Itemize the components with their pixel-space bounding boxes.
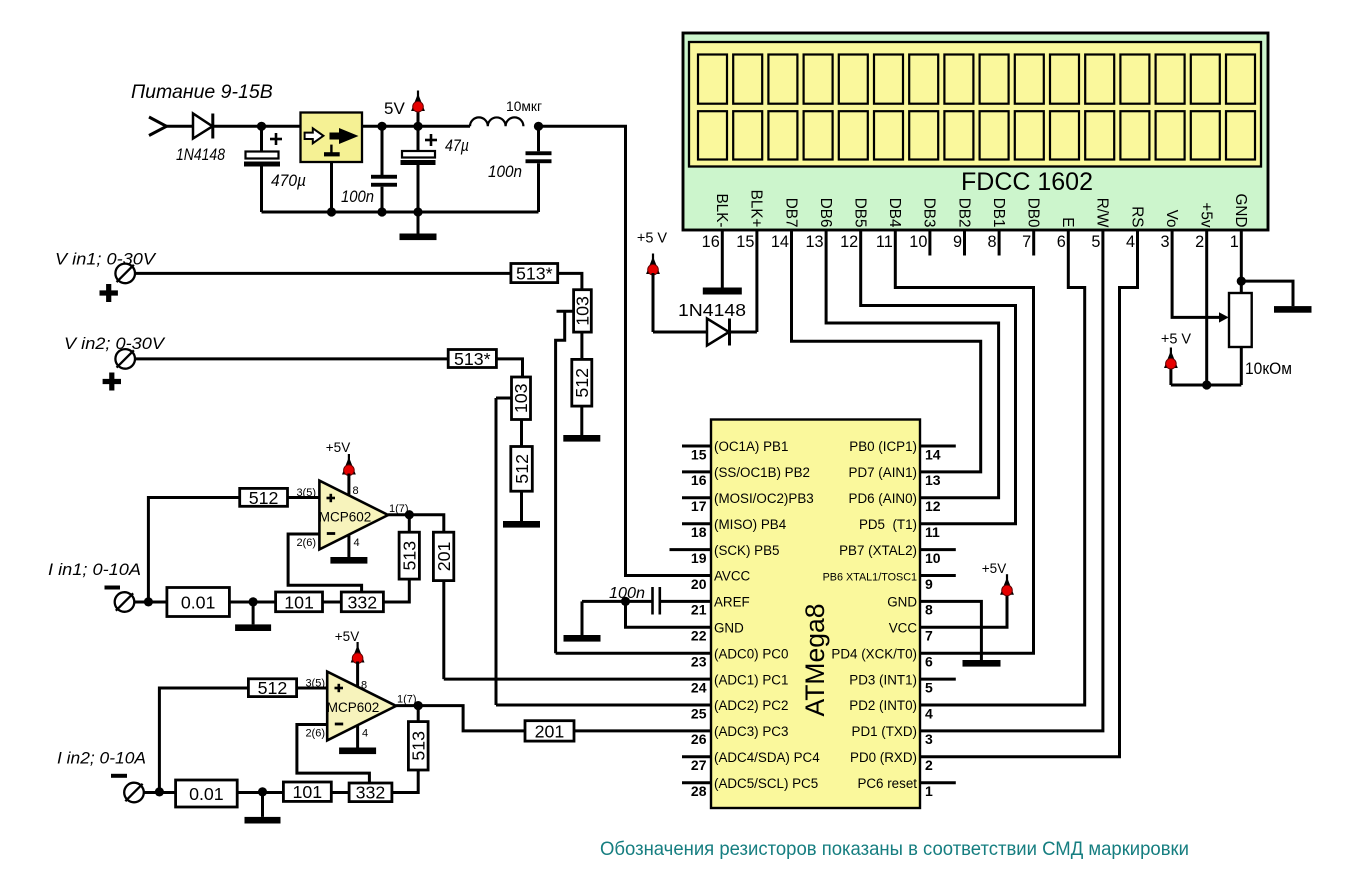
- wire: [229, 601, 275, 604]
- wire DB5 to PD5: [861, 230, 1016, 524]
- label minus I in2: [111, 774, 127, 778]
- svg-text:16: 16: [702, 233, 720, 251]
- resistor R6 512: [511, 447, 533, 492]
- wire: [417, 706, 420, 722]
- svg-text:8: 8: [988, 233, 997, 251]
- power +5V arrow A6: [351, 642, 365, 686]
- svg-text:MCP602: MCP602: [327, 700, 380, 715]
- wire: [520, 420, 523, 447]
- svg-text:AVCC: AVCC: [714, 569, 751, 584]
- svg-text:GND: GND: [714, 621, 744, 636]
- terminal I in1: [115, 592, 135, 612]
- svg-text:(ADC3) PC3: (ADC3) PC3: [714, 724, 788, 739]
- ground LCD right: [1274, 306, 1312, 313]
- svg-text:8: 8: [361, 680, 367, 692]
- svg-text:1: 1: [1230, 233, 1239, 251]
- svg-text:13: 13: [805, 233, 823, 251]
- wire ADC2 pin25: [496, 704, 711, 707]
- wiper arrowhead: [1219, 312, 1229, 322]
- wire: [166, 125, 193, 128]
- input connector J1: [149, 117, 167, 136]
- node M junction: [144, 597, 153, 606]
- wire: [159, 688, 248, 792]
- IC U3 pin name labels: [714, 439, 917, 791]
- power +5V arrow A3: [1164, 348, 1178, 386]
- svg-text:16: 16: [691, 472, 707, 488]
- svg-text:(ADC0) PC0: (ADC0) PC0: [714, 646, 788, 661]
- svg-text:E: E: [1059, 217, 1076, 227]
- node G junction: [413, 207, 422, 216]
- svg-text:I in2; 0-10A: I in2; 0-10A: [57, 749, 146, 768]
- svg-text:(SCK) PB5: (SCK) PB5: [714, 543, 779, 558]
- svg-text:332: 332: [356, 783, 386, 803]
- svg-text:7: 7: [925, 628, 933, 644]
- svg-text:PD3 (INT1): PD3 (INT1): [849, 672, 917, 687]
- svg-text:11: 11: [876, 233, 893, 251]
- svg-text:2(6): 2(6): [305, 728, 325, 740]
- wire: [323, 601, 342, 604]
- svg-text:DB1: DB1: [990, 198, 1007, 228]
- svg-text:Vo: Vo: [1163, 210, 1180, 228]
- node O junction: [405, 510, 414, 519]
- svg-text:+5V: +5V: [326, 440, 350, 455]
- capacitor C4 100n: [526, 126, 552, 212]
- svg-text:R/W: R/W: [1094, 198, 1111, 228]
- svg-text:47µ: 47µ: [445, 136, 469, 155]
- wire: [297, 687, 328, 690]
- svg-text:13: 13: [925, 472, 941, 488]
- svg-text:101: 101: [293, 782, 323, 802]
- svg-text:6: 6: [1057, 233, 1066, 251]
- svg-text:+5v: +5v: [1198, 202, 1215, 227]
- svg-text:V in1; 0-30V: V in1; 0-30V: [55, 250, 157, 269]
- wire: [136, 357, 449, 360]
- svg-text:10: 10: [925, 550, 941, 566]
- wire 5V rail: [539, 126, 712, 575]
- IC U3 ATMega8 body: [711, 420, 920, 809]
- svg-text:22: 22: [691, 628, 707, 644]
- svg-text:PB7 (XTAL2): PB7 (XTAL2): [839, 543, 917, 558]
- capacitor C1 470µ: [244, 126, 280, 212]
- svg-text:PD6 (AIN0): PD6 (AIN0): [849, 491, 917, 506]
- svg-text:513: 513: [408, 731, 428, 761]
- resistor R2 103: [573, 290, 593, 332]
- wire: [362, 125, 470, 128]
- svg-text:PD5 (T1): PD5 (T1): [859, 517, 917, 532]
- wire: [136, 272, 511, 275]
- svg-text:3: 3: [925, 731, 933, 747]
- ground U1 pin4: [330, 535, 367, 564]
- resistor R9 101: [276, 592, 323, 612]
- wire ground rail: [262, 211, 539, 214]
- node A junction: [257, 122, 266, 131]
- svg-text:103: 103: [573, 296, 593, 326]
- svg-text:201: 201: [535, 721, 565, 741]
- svg-text:PB0 (ICP1): PB0 (ICP1): [849, 439, 917, 454]
- svg-text:DB2: DB2: [955, 198, 972, 228]
- wire: [580, 332, 583, 359]
- wire: [288, 496, 320, 499]
- svg-text:PC6 reset: PC6 reset: [857, 776, 917, 791]
- power +5V arrow A4: [1000, 574, 1014, 596]
- terminal I in2: [124, 783, 144, 803]
- ground main: [400, 212, 437, 240]
- svg-text:ATMega8: ATMega8: [800, 604, 830, 717]
- label minus I in1: [105, 586, 121, 590]
- svg-text:512: 512: [512, 454, 532, 484]
- svg-text:+5V: +5V: [982, 561, 1006, 576]
- potentiometer RV1 10кОм: [1229, 281, 1252, 385]
- svg-text:512: 512: [249, 488, 279, 508]
- svg-text:GND: GND: [1232, 194, 1249, 228]
- wire: [135, 601, 167, 604]
- LCD module body: [683, 33, 1268, 230]
- wire pin15 BLK+: [755, 230, 758, 332]
- svg-text:25: 25: [691, 705, 707, 721]
- resistor R1 513*: [511, 263, 558, 283]
- svg-text:103: 103: [511, 383, 531, 413]
- svg-text:5: 5: [925, 679, 933, 695]
- node J junction: [621, 597, 630, 606]
- wire: [442, 581, 445, 680]
- svg-text:PD1 (TXD): PD1 (TXD): [852, 724, 917, 739]
- ground BLK-: [703, 288, 742, 295]
- svg-text:14: 14: [925, 446, 941, 462]
- svg-text:(ADC2) PC2: (ADC2) PC2: [714, 698, 788, 713]
- wire: [574, 729, 711, 732]
- svg-text:470µ: 470µ: [271, 171, 306, 190]
- svg-text:DB0: DB0: [1025, 198, 1042, 228]
- LCD display area: [689, 42, 1261, 167]
- wire: [409, 515, 444, 533]
- capacitor C3 47µ: [401, 126, 436, 212]
- resistor R3 512: [572, 359, 592, 406]
- svg-text:Обозначения резисторов показан: Обозначения резисторов показаны в соотве…: [600, 838, 1189, 860]
- wire ADC0 pin23: [556, 652, 711, 655]
- wire pin1 GND: [1240, 230, 1243, 281]
- label U1b minus input: [335, 723, 343, 726]
- wire feedback U1b: [297, 725, 370, 784]
- wire: [331, 791, 349, 794]
- svg-text:513*: 513*: [516, 263, 553, 283]
- wire: [383, 579, 409, 602]
- svg-text:9: 9: [925, 576, 933, 592]
- svg-text:2(6): 2(6): [296, 537, 316, 549]
- svg-text:18: 18: [691, 524, 707, 540]
- node F junction: [377, 207, 386, 216]
- svg-text:5: 5: [1091, 233, 1100, 251]
- wire Vo to wiper: [1172, 230, 1220, 317]
- wire: [1241, 281, 1293, 306]
- node H junction: [1237, 277, 1246, 286]
- ground shunt1: [235, 602, 271, 631]
- svg-text:MCP602: MCP602: [319, 510, 372, 525]
- wire: [144, 791, 175, 794]
- wire VCC pin7: [920, 595, 1007, 627]
- svg-text:4: 4: [362, 728, 368, 740]
- ground pin8: [963, 660, 1001, 667]
- svg-text:10мкг: 10мкг: [506, 99, 542, 114]
- wire: [653, 331, 707, 334]
- wire DB6 to PD6: [826, 230, 999, 498]
- svg-text:8: 8: [353, 485, 359, 497]
- wire: [148, 498, 239, 602]
- wire DB0 stub: [1032, 230, 1035, 256]
- power +5V arrow A1: [411, 91, 425, 127]
- svg-text:V in2; 0-30V: V in2; 0-30V: [64, 334, 166, 353]
- svg-text:GND: GND: [887, 595, 917, 610]
- resistor R5 103: [511, 377, 531, 420]
- svg-text:DB7: DB7: [782, 198, 799, 228]
- svg-text:VCC: VCC: [889, 621, 918, 636]
- label plus V in2: [103, 373, 121, 391]
- wire: [731, 331, 757, 334]
- svg-text:PD2 (INT0): PD2 (INT0): [849, 698, 917, 713]
- wire DB2 stub: [963, 230, 966, 256]
- wire: [392, 770, 418, 793]
- svg-text:BLK-: BLK-: [713, 193, 730, 227]
- svg-text:PD7 (AIN1): PD7 (AIN1): [849, 465, 917, 480]
- svg-text:2: 2: [925, 757, 933, 773]
- svg-text:332: 332: [348, 592, 378, 612]
- wire: [582, 600, 652, 603]
- node P junction: [155, 787, 164, 796]
- svg-text:7: 7: [1022, 233, 1031, 251]
- wire R/W to PD1: [920, 230, 1103, 731]
- svg-text:101: 101: [284, 592, 314, 612]
- wire DB7 to PD7: [792, 230, 981, 472]
- wire DB3 stub: [928, 230, 931, 256]
- wire E to PD2: [920, 230, 1085, 705]
- svg-text:4: 4: [1126, 233, 1135, 251]
- LCD pin name labels: [713, 190, 1249, 228]
- svg-text:PB6 XTAL1/TOSC1: PB6 XTAL1/TOSC1: [823, 572, 917, 584]
- ground shunt2: [245, 793, 281, 824]
- wire GND pin22: [626, 601, 712, 627]
- op-amp U1b MCP602: [327, 672, 396, 741]
- svg-text:BLK+: BLK+: [748, 190, 765, 228]
- DC-DC converter U2: [301, 113, 363, 163]
- capacitor C5 100n AREF: [653, 587, 660, 615]
- svg-text:28: 28: [691, 783, 707, 799]
- svg-text:201: 201: [434, 541, 454, 571]
- svg-text:1: 1: [925, 783, 933, 799]
- svg-text:2: 2: [1195, 233, 1204, 251]
- svg-text:100n: 100n: [341, 187, 374, 206]
- resistor R14 0.01: [176, 780, 238, 807]
- wire AREF pin21: [661, 600, 711, 603]
- IC U3 unconnected pin stubs: [670, 446, 956, 783]
- svg-text:DB5: DB5: [852, 198, 869, 228]
- svg-text:+5 V: +5 V: [1161, 332, 1192, 348]
- svg-text:1N4148: 1N4148: [678, 300, 746, 320]
- terminal V in2: [115, 349, 135, 369]
- svg-text:17: 17: [691, 498, 707, 514]
- wire tap node K: [557, 310, 574, 313]
- svg-text:PD4 (XCK/T0): PD4 (XCK/T0): [831, 646, 917, 661]
- terminal V in1: [115, 264, 135, 284]
- svg-text:10: 10: [909, 233, 927, 251]
- wire: [237, 791, 283, 794]
- resistor R15 101: [283, 782, 331, 802]
- svg-text:15: 15: [691, 446, 707, 462]
- label U1 plus input: [327, 494, 336, 502]
- LCD character cells: [698, 55, 1255, 160]
- resistor R16 332: [349, 783, 392, 803]
- label C3 plus: [425, 134, 437, 146]
- svg-text:(OC1A) PB1: (OC1A) PB1: [714, 439, 788, 454]
- ground AREF: [564, 601, 601, 641]
- node N junction: [249, 597, 258, 606]
- svg-text:(ADC4/SDA) PC4: (ADC4/SDA) PC4: [714, 750, 820, 765]
- wire RS to PD0: [920, 230, 1138, 757]
- svg-text:512: 512: [258, 678, 288, 698]
- op-amp U1 MCP602: [319, 481, 388, 550]
- svg-text:DB6: DB6: [817, 198, 834, 228]
- svg-text:(ADC1) PC1: (ADC1) PC1: [714, 672, 788, 687]
- svg-text:FDCC 1602: FDCC 1602: [961, 168, 1093, 196]
- svg-text:DB4: DB4: [886, 198, 903, 228]
- wire: [418, 706, 525, 731]
- svg-text:5V: 5V: [384, 99, 405, 118]
- resistor R13 512: [248, 678, 296, 698]
- svg-text:20: 20: [691, 576, 707, 592]
- svg-text:12: 12: [840, 233, 858, 251]
- svg-text:15: 15: [736, 233, 754, 251]
- svg-text:100n: 100n: [488, 162, 522, 181]
- wire tap node L: [496, 397, 512, 400]
- resistor R12 201: [433, 532, 453, 580]
- node S junction: [414, 701, 423, 710]
- node C junction: [413, 122, 422, 131]
- diode D2 1N4148: [707, 319, 730, 346]
- svg-text:Питание 9-15В: Питание 9-15В: [131, 81, 273, 103]
- wire: [556, 311, 565, 653]
- svg-text:23: 23: [691, 654, 707, 670]
- wire DB1 stub: [998, 230, 1001, 256]
- resistor R18 201: [525, 721, 574, 742]
- wire feedback U1: [288, 534, 362, 592]
- svg-text:DB3: DB3: [921, 198, 938, 228]
- resistor R11 513: [399, 532, 419, 579]
- label U1b plus input: [335, 684, 344, 692]
- label U1 minus input: [327, 532, 335, 535]
- svg-text:6: 6: [925, 654, 933, 670]
- svg-text:I in1; 0-10A: I in1; 0-10A: [48, 560, 141, 579]
- svg-text:+5V: +5V: [335, 629, 359, 644]
- svg-text:11: 11: [925, 524, 940, 540]
- svg-text:513: 513: [399, 541, 419, 571]
- capacitor C2 100n: [371, 126, 397, 212]
- resistor R8 0.01: [167, 588, 230, 617]
- wire: [388, 513, 409, 516]
- wire pin2 +5v: [1205, 230, 1208, 385]
- resistor R7 512: [240, 488, 288, 508]
- wire: [396, 704, 418, 707]
- svg-text:(SS/OC1B) PB2: (SS/OC1B) PB2: [714, 465, 810, 480]
- svg-text:27: 27: [691, 757, 707, 773]
- svg-text:(ADC5/SCL) PC5: (ADC5/SCL) PC5: [714, 776, 818, 791]
- wire: [495, 398, 498, 705]
- node Q junction: [258, 787, 267, 796]
- wire: [1171, 384, 1241, 387]
- node I junction: [1202, 380, 1211, 389]
- svg-text:(MISO) PB4: (MISO) PB4: [714, 517, 787, 532]
- node E junction: [327, 207, 336, 216]
- svg-text:0.01: 0.01: [181, 592, 216, 612]
- svg-text:1(7): 1(7): [397, 694, 417, 706]
- svg-text:12: 12: [925, 498, 941, 514]
- resistor R10 332: [341, 592, 383, 612]
- wire: [214, 125, 301, 128]
- svg-text:21: 21: [691, 602, 707, 618]
- svg-text:512: 512: [572, 368, 592, 398]
- LCD pin number labels: [702, 233, 1239, 251]
- svg-text:4: 4: [354, 537, 360, 549]
- svg-text:24: 24: [691, 679, 707, 695]
- svg-text:26: 26: [691, 731, 707, 747]
- wire: [496, 359, 522, 377]
- svg-text:4: 4: [925, 705, 933, 721]
- node B junction: [377, 122, 386, 131]
- wire GND pin8: [920, 601, 981, 660]
- svg-text:19: 19: [691, 550, 707, 566]
- wire: [558, 273, 582, 289]
- power +5V arrow A2: [646, 254, 660, 333]
- svg-text:9: 9: [953, 233, 962, 251]
- svg-text:513*: 513*: [454, 349, 491, 369]
- svg-text:AREF: AREF: [714, 595, 750, 610]
- diode D1 1N4148: [193, 114, 213, 139]
- svg-text:10кОм: 10кОм: [1245, 360, 1292, 378]
- resistor R4 513*: [448, 349, 496, 369]
- ground divider2: [503, 491, 540, 527]
- node D junction: [534, 122, 543, 131]
- svg-text:14: 14: [771, 233, 789, 251]
- svg-text:PD0 (RXD): PD0 (RXD): [850, 750, 917, 765]
- svg-text:3: 3: [1161, 233, 1170, 251]
- svg-text:1N4148: 1N4148: [176, 146, 226, 164]
- ground divider1: [563, 406, 600, 442]
- label plus V in1: [100, 284, 118, 302]
- svg-text:(MOSI/OC2)PB3: (MOSI/OC2)PB3: [714, 491, 814, 506]
- wire: [408, 515, 411, 533]
- wire ADC1 pin24: [444, 678, 711, 681]
- label C1 plus: [270, 133, 282, 145]
- wire pin16 BLK-: [721, 230, 724, 288]
- wire DB4 to PD4: [895, 230, 1033, 653]
- wire: [330, 162, 333, 212]
- svg-text:8: 8: [925, 602, 933, 618]
- svg-text:0.01: 0.01: [189, 784, 224, 804]
- svg-text:RS: RS: [1128, 206, 1145, 227]
- inductor L1: [470, 117, 523, 126]
- svg-text:+5 V: +5 V: [637, 231, 668, 247]
- resistor R17 513: [408, 722, 428, 770]
- ground U1b pin4: [339, 726, 376, 755]
- power +5V arrow A5: [342, 454, 356, 496]
- IC U3 pin number labels: [691, 446, 941, 799]
